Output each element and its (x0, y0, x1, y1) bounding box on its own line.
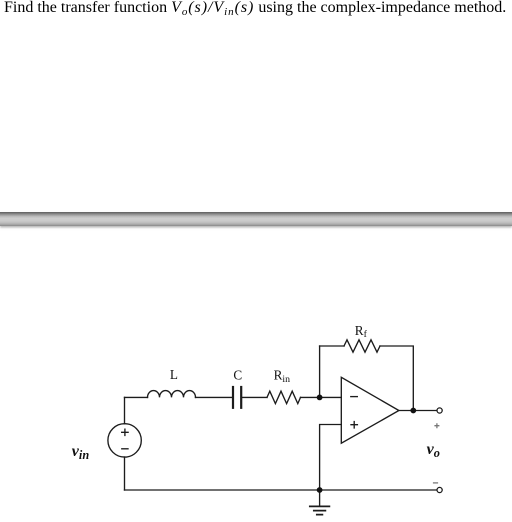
svg-text:vo: vo (427, 441, 440, 460)
node A junction dot (inverting input) (317, 395, 323, 401)
wire Rf left lead (320, 345, 344, 347)
ground stub (319, 490, 321, 506)
vin plus marker (122, 429, 128, 435)
vin minus marker (122, 448, 128, 450)
resistor Rf (344, 340, 380, 352)
wire vin source bottom lead (124, 457, 126, 490)
wire inductor to capacitor (196, 396, 232, 398)
inductor L (148, 391, 196, 398)
node B junction dot (output) (410, 408, 416, 414)
output terminal bottom (open circle) (437, 487, 442, 492)
capacitor C right plate (240, 387, 242, 408)
svg-text:Rf: Rf (355, 323, 368, 340)
wire ground rail (125, 489, 437, 491)
title text (4, 0, 506, 17)
wire op-amp plus input to ground rail (320, 425, 342, 491)
svg-text:C: C (233, 367, 242, 382)
wire Rin to inverting node (301, 396, 320, 398)
svg-text:L: L (170, 367, 178, 382)
wire top-left corner to inductor (125, 396, 148, 398)
op-amp plus input marker (351, 422, 357, 428)
output plus sign (434, 423, 439, 428)
wire node to op-amp inverting input (320, 396, 342, 398)
wire feedback riser (node up to Rf) (319, 346, 321, 397)
gray divider bar (0, 212, 512, 227)
wire vin source top lead (124, 397, 126, 423)
ground symbol (310, 506, 330, 514)
wire op-amp output to terminal (399, 410, 437, 412)
output terminal top (open circle) (437, 408, 442, 413)
output minus sign (433, 482, 438, 484)
svg-text:Rin: Rin (274, 368, 291, 385)
wire capacitor to resistor Rin (243, 396, 268, 398)
op-amp minus input marker (351, 396, 358, 398)
voltage source vin circle (108, 424, 141, 457)
capacitor C left plate (232, 387, 234, 408)
op-amp U1 triangle (341, 377, 399, 443)
wire Rf right lead and drop to output (380, 346, 413, 411)
resistor Rin (267, 391, 301, 403)
svg-text:vin: vin (72, 443, 90, 462)
node G junction dot (ground rail) (317, 487, 323, 493)
